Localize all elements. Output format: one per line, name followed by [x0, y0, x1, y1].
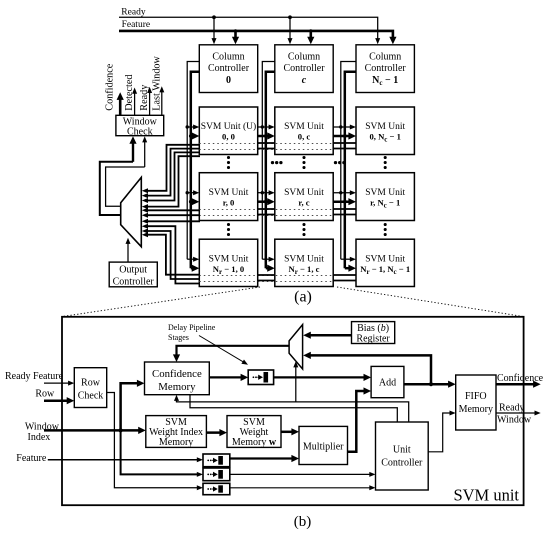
wire reg3 to Unit Controller [230, 487, 371, 489]
wire column 0 thin bus [187, 62, 199, 260]
block SVM Unit row0 col2 [356, 107, 414, 155]
wire dotted bus row0 lower [199, 149, 333, 151]
wire Detected output arrow [134, 92, 136, 115]
block SVM Unit row2 col1 [275, 239, 333, 286]
block Window Check [116, 115, 164, 135]
block SVM Unit row1 col0 [199, 173, 257, 221]
svg-text:Ready Feature: Ready Feature [5, 371, 64, 382]
block Row Check [74, 368, 106, 408]
svg-text:SVM Unit (U): SVM Unit (U) [201, 121, 256, 132]
wire Row Check out to reg3 [107, 393, 199, 488]
wire gap bus row2 257.7 [258, 274, 275, 276]
block Add [371, 366, 404, 397]
wire Row input [44, 399, 69, 402]
wire thick input unit r2c1 [266, 267, 270, 270]
wire thick input unit r0c2 [343, 134, 347, 138]
block FIFO Memory [456, 375, 496, 430]
svg-text:Memory: Memory [159, 437, 193, 448]
wire Feature input [48, 459, 199, 461]
wire row0 output 3 to mux [147, 156, 200, 206]
svg-text:Feature: Feature [122, 20, 151, 30]
wire Confidence output arrow [119, 97, 122, 115]
svg-text:Row: Row [35, 388, 55, 399]
svg-text:Ready: Ready [121, 7, 146, 17]
svg-text:Memory: Memory [158, 381, 196, 393]
block SVM Unit row1 col2 [356, 173, 414, 221]
svg-text:Controller: Controller [381, 458, 423, 469]
node Ready tap col c [288, 15, 292, 19]
wire dotted bus row2 lower [199, 281, 333, 283]
wire thin input unit r0c2 [339, 125, 342, 128]
wire delay pipeline pointer [199, 336, 245, 364]
wire mux output A to Window Check [100, 162, 133, 215]
svg-text:Memory w: Memory w [232, 437, 277, 448]
svg-text:Confidence: Confidence [104, 63, 115, 110]
svg-text:Controller: Controller [283, 63, 325, 74]
wire thick input unit r2c0 [191, 267, 195, 270]
svg-text:Stages: Stages [168, 333, 189, 342]
block Bias Register [352, 322, 395, 344]
block SVM Unit row0 col1 [275, 107, 333, 155]
svg-text:Output: Output [119, 264, 147, 275]
wire row0 output 2 to mux [147, 152, 200, 200]
node hdots x335.5 [334, 161, 337, 164]
svg-text:Last Window: Last Window [152, 55, 163, 110]
node vdots col0 y157.5 [227, 156, 230, 159]
wire thick input unit r1c1 [264, 200, 268, 204]
svg-text:Nc − 1: Nc − 1 [372, 75, 398, 87]
wire thick input unit r1c2 [343, 200, 347, 204]
svg-text:Memory: Memory [459, 404, 493, 415]
svg-text:Add: Add [379, 378, 396, 389]
wire row2 output 0 to mux [147, 235, 200, 275]
svg-text:Column: Column [288, 51, 320, 62]
wire dotted bus row1 upper [199, 209, 333, 211]
svg-text:Confidence: Confidence [152, 368, 202, 380]
block SVM Weight Index Memory [146, 416, 207, 448]
svg-text:FIFO: FIFO [465, 391, 487, 402]
wire row r output 0 to mux [147, 209, 200, 211]
wire dotted bus row2 upper [199, 275, 333, 277]
wire reg2 to Unit Controller [230, 473, 371, 475]
svg-text:Register: Register [356, 334, 390, 345]
wire row r output 1 to mux [147, 214, 200, 216]
wire gap bus row0 333.2 [333, 142, 356, 144]
svg-text:c: c [302, 75, 307, 86]
svg-text:Controller: Controller [208, 63, 250, 74]
svg-text:(a): (a) [294, 289, 312, 306]
node vdots col2 y224.5 [384, 223, 387, 226]
wire gap bus row2 333.2 [333, 274, 356, 276]
svg-text:SVM unit: SVM unit [453, 486, 519, 505]
wire gap bus row1 257.7 [258, 208, 275, 210]
block Multiplier [299, 426, 348, 464]
node vdots col2 y157.5 [384, 156, 387, 159]
wire thin input unit r1c1 [261, 191, 264, 194]
wire Window Index input [44, 429, 141, 432]
svg-text:Row: Row [81, 378, 101, 389]
mux output multiplexer (a) [121, 177, 142, 246]
svg-text:Ready: Ready [499, 402, 525, 413]
svg-text:(b): (b) [294, 514, 312, 530]
wire control line to Confidence Memory and mux select [177, 399, 409, 422]
wire index up to Confidence Memory [121, 383, 140, 430]
svg-text:Check: Check [127, 126, 153, 137]
wire column Nc-1 thin bus [341, 62, 356, 260]
mux bias multiplexer (b) [289, 325, 303, 369]
node vdots col1 y224.5 [302, 223, 305, 226]
block Output Controller [109, 262, 157, 287]
svg-text:Unit: Unit [393, 445, 411, 456]
wire Ready Window output [496, 412, 537, 414]
wire row2 output 1 to mux [147, 231, 200, 279]
wire Multiplier to Add [348, 391, 367, 452]
wire Unit Controller to FIFO [428, 413, 451, 452]
node Window Index junction [119, 428, 123, 432]
wire dashed callout left [63, 287, 261, 317]
svg-text:Controller: Controller [113, 276, 155, 287]
svg-text:Detected: Detected [124, 74, 135, 110]
wire dotted bus row0 upper [199, 143, 333, 145]
node Ready tap col 0 [212, 15, 216, 19]
svg-text:Ready: Ready [139, 84, 150, 111]
wire Confidence Memory to delay reg [209, 376, 243, 378]
wire dotted bus row1 lower [199, 215, 333, 217]
wire Ready output arrow [149, 91, 151, 115]
node vdots col1 y157.5 [302, 156, 305, 159]
wire thin input unit r2c1 [262, 258, 270, 260]
svg-text:Check: Check [78, 391, 104, 402]
svg-text:Column: Column [369, 51, 401, 62]
register delay stage after Confidence Memory [248, 370, 273, 385]
node vdots col0 y224.5 [227, 223, 230, 226]
wire delay reg to Add [274, 376, 367, 378]
wire Ready rail [119, 17, 378, 40]
wire Weight Index to Weight Memory [206, 431, 222, 434]
register feature delay 3 [203, 483, 230, 494]
wire gap bus row1 333.2 [333, 208, 356, 210]
svg-text:0, c: 0, c [298, 132, 311, 142]
node hdots x272.5 [271, 161, 274, 164]
svg-text:0, 0: 0, 0 [222, 132, 235, 142]
svg-text:Multiplier: Multiplier [303, 442, 344, 453]
svg-text:Delay Pipeline: Delay Pipeline [168, 323, 216, 332]
wire Confidence output [496, 383, 536, 386]
block SVM Unit row2 col0 [199, 239, 257, 286]
wire thin input unit r0c0 [186, 125, 189, 128]
block Column Controller 0 [199, 45, 257, 93]
wire thick input unit r1c0 [189, 200, 193, 204]
wire thin input unit r1c0 [186, 191, 189, 194]
block SVM Unit row0 col0 [199, 107, 257, 155]
wire mux (b) output to Confidence Memory [177, 346, 290, 358]
wire thick input unit r0c0 [189, 134, 193, 138]
svg-text:Feature: Feature [16, 453, 47, 464]
node Feature tap col 0 [234, 29, 237, 32]
register feature delay 1 [203, 454, 230, 467]
wire mux output B to Window Check [106, 167, 145, 206]
svg-text:r, 0: r, 0 [223, 197, 235, 207]
svg-text:Column: Column [212, 51, 244, 62]
svg-text:Bias (b): Bias (b) [357, 323, 389, 334]
wire thin input unit r0c1 [261, 125, 264, 128]
wire feedback to mux [308, 355, 432, 384]
wire column c thick bus [266, 72, 275, 269]
wire row r output 2 to mux [147, 220, 200, 222]
block SVM unit enclosure [62, 317, 524, 505]
wire thick input unit r0c1 [264, 134, 268, 138]
node Feature tap col c [309, 29, 312, 32]
wire Last Window output arrow [161, 91, 163, 116]
svg-text:0: 0 [226, 75, 231, 86]
wire thin input unit r2c2 [341, 258, 352, 260]
block Column Controller Nc-1 [356, 45, 414, 93]
wire column c thin bus [262, 62, 275, 260]
register feature delay 2 [203, 468, 230, 481]
wire dashed callout right [337, 287, 523, 317]
wire row0 output 0 to mux [147, 145, 200, 191]
wire column Nc-1 thick bus [345, 72, 356, 269]
wire feature reg to Multiplier [230, 457, 295, 459]
block Column Controller c [275, 45, 333, 93]
wire Weight Memory to Multiplier [281, 431, 295, 434]
wire row0 output 1 to mux [147, 149, 200, 196]
block SVM Weight Memory w [227, 416, 281, 448]
wire row2 output 2 to mux [147, 226, 200, 283]
wire ready into Window Check [144, 140, 146, 167]
wire Ready Feature input [44, 382, 70, 384]
block SVM Unit row1 col1 [275, 173, 333, 221]
block SVM Unit row2 col2 [356, 239, 414, 286]
wire column 0 thick bus [191, 72, 200, 269]
wire thin input unit r1c2 [339, 191, 342, 194]
svg-text:Controller: Controller [365, 63, 407, 74]
wire Feature rail [119, 31, 393, 39]
wire Add output to FIFO [404, 383, 451, 386]
svg-text:Index: Index [28, 432, 51, 443]
wire Bias to mux [308, 334, 352, 337]
wire thin input unit r2c0 [187, 258, 195, 260]
wire gap bus row0 257.7 [258, 142, 275, 144]
wire Output Controller select to mux [127, 242, 129, 263]
wire index down to reg2 [121, 430, 199, 474]
svg-text:r, c: r, c [298, 197, 309, 207]
wire Confidence Memory out to Unit Controller [190, 395, 397, 422]
wire thick input unit r2c2 [345, 267, 351, 270]
wire confidence into Window Check [132, 141, 134, 162]
svg-text:Window: Window [497, 414, 532, 425]
block Unit Controller [376, 422, 429, 490]
block Confidence Memory [145, 362, 210, 395]
